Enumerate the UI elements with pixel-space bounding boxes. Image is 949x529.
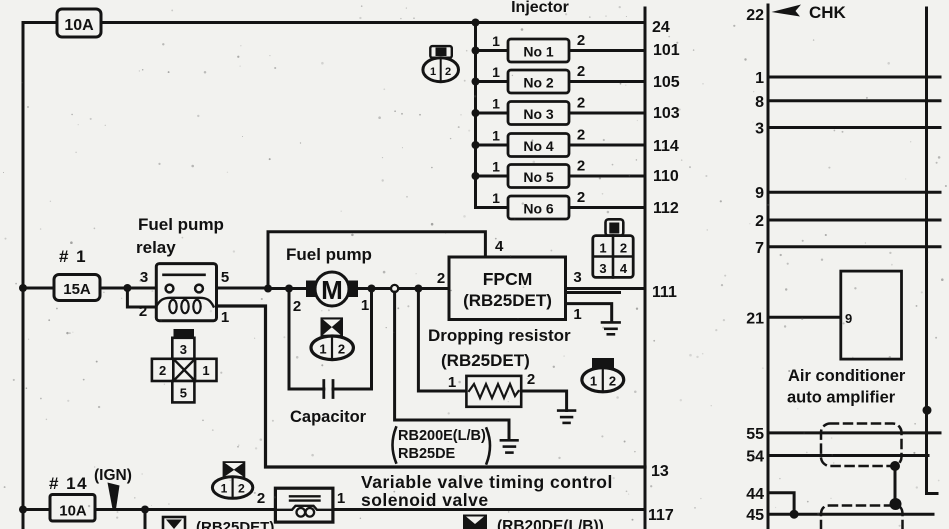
wire: pin 2 <box>768 219 940 222</box>
capacitor branch <box>289 289 372 390</box>
wire: link down <box>894 466 897 504</box>
wire: injector No4 leads <box>476 144 646 147</box>
svg-text:2: 2 <box>577 189 585 206</box>
svg-text:1: 1 <box>202 363 209 378</box>
svg-text:9: 9 <box>845 311 852 326</box>
svg-text:1: 1 <box>590 374 597 389</box>
svg-text:1: 1 <box>361 297 369 314</box>
wire: pin 3 <box>768 126 940 129</box>
svg-text:relay: relay <box>136 238 176 257</box>
svg-text:RB25DE: RB25DE <box>398 446 456 462</box>
svg-text:5: 5 <box>221 269 229 286</box>
dashed option box (45) <box>821 506 903 529</box>
svg-text:1: 1 <box>492 128 500 144</box>
svg-text:103: 103 <box>653 105 680 122</box>
wire: top feed from bus to ECU line <box>23 21 645 24</box>
svg-text:(RB20DE(L/B)): (RB20DE(L/B)) <box>497 518 604 529</box>
svg-text:7: 7 <box>755 240 764 257</box>
node: dashed box to lower link <box>890 461 900 471</box>
connector: fuel pump 2-pin (bowtie + oval) <box>311 317 353 359</box>
svg-text:1: 1 <box>573 306 581 323</box>
svg-text:2: 2 <box>577 158 585 175</box>
svg-text:Variable valve timing control: Variable valve timing control <box>361 472 613 492</box>
node: battery bus to fuse #14 <box>19 506 27 514</box>
svg-text:8: 8 <box>755 94 764 111</box>
solenoid valve (VVT) <box>275 488 333 522</box>
injector No 4 <box>508 134 569 157</box>
wire: pump feed main <box>268 287 449 290</box>
svg-text:5: 5 <box>180 386 187 401</box>
svg-text:Fuel pump: Fuel pump <box>286 245 372 264</box>
svg-text:2: 2 <box>527 371 535 388</box>
svg-text:22: 22 <box>746 7 764 24</box>
connector: injector sub-harness (oval 1|2 with tab) <box>423 46 459 82</box>
page connector (RB20DE) bowtie <box>463 515 487 529</box>
svg-text:2: 2 <box>620 241 627 256</box>
wire: injector No1 leads <box>476 49 646 52</box>
ground (FPCM) <box>602 322 620 334</box>
svg-text:2: 2 <box>159 363 166 378</box>
svg-text:4: 4 <box>495 238 504 255</box>
svg-text:1: 1 <box>492 96 500 112</box>
wire: pin 54 <box>768 454 928 457</box>
svg-text:1: 1 <box>492 33 500 49</box>
wire: pin 44 stub <box>768 493 794 515</box>
svg-text:2: 2 <box>577 127 585 144</box>
svg-text:21: 21 <box>746 311 764 328</box>
svg-text:M: M <box>321 275 343 305</box>
svg-text:CHK: CHK <box>809 3 847 22</box>
injector No 6 <box>508 196 569 219</box>
wire: pin 7 <box>768 245 940 248</box>
svg-text:No 1: No 1 <box>523 44 554 60</box>
svg-text:10A: 10A <box>59 503 87 520</box>
svg-text:45: 45 <box>746 507 764 524</box>
FPCM module <box>449 257 566 320</box>
svg-text:No 6: No 6 <box>523 201 554 217</box>
wire: resistor to ground <box>521 391 566 411</box>
svg-text:FPCM: FPCM <box>483 269 533 289</box>
dashed option box (55/54) <box>821 424 902 467</box>
connector: fuel pump relay 5-pin <box>152 329 217 402</box>
node: open circle junction (pump ground split) <box>391 285 398 292</box>
node: motor right <box>368 285 376 293</box>
connector: dropping resistor 2-pin (oval with black tab) <box>582 358 624 392</box>
fuse 10A (#14) <box>50 495 95 522</box>
svg-text:Capacitor: Capacitor <box>290 408 367 426</box>
wire: relay pin 1 to ECU pin 13 <box>217 306 646 467</box>
svg-text:1: 1 <box>492 190 500 206</box>
svg-text:3: 3 <box>180 342 187 357</box>
svg-text:Fuel pump: Fuel pump <box>138 215 224 234</box>
wire: to relay pin 2 <box>127 288 156 307</box>
node: relay output junction <box>264 285 272 293</box>
fuse 10A (top) <box>57 9 101 37</box>
svg-text:110: 110 <box>653 168 679 185</box>
wire: dropping resistor feed <box>418 289 466 392</box>
svg-text:Air conditioner: Air conditioner <box>788 367 906 385</box>
svg-text:2: 2 <box>293 298 301 315</box>
node: branch below #14 <box>141 506 149 514</box>
ground (RB20DE branch) <box>501 440 518 452</box>
injector No 3 <box>508 102 569 125</box>
svg-text:114: 114 <box>653 138 679 155</box>
wire: FPCM pin 3 to ECU 111 <box>566 287 646 290</box>
node: dropping resistor branch <box>414 285 422 293</box>
node: relay coil branch <box>123 284 131 292</box>
svg-text:(IGN): (IGN) <box>94 467 132 484</box>
CHK arrow <box>772 5 802 17</box>
svg-text:auto amplifier: auto amplifier <box>787 389 896 407</box>
svg-text:112: 112 <box>653 200 679 217</box>
node: far right junction <box>923 406 932 415</box>
svg-text:2: 2 <box>437 270 445 287</box>
wire: FPCM pin 1 to ground <box>566 304 612 322</box>
wire: pin 9 <box>768 191 940 194</box>
svg-text:1: 1 <box>319 342 326 357</box>
svg-text:(RB25DET): (RB25DET) <box>463 291 552 310</box>
svg-text:2: 2 <box>445 66 451 78</box>
wire: pin 21 to AC amplifier <box>768 316 841 319</box>
wire: branch down to page edge <box>144 510 147 529</box>
injector No 5 <box>508 165 569 188</box>
svg-text:2: 2 <box>238 482 245 496</box>
svg-text:(RB25DET): (RB25DET) <box>441 351 530 370</box>
connector: solenoid 2-pin (bowtie + oval) <box>212 461 252 498</box>
svg-text:RB200E(L/B): RB200E(L/B) <box>398 428 486 444</box>
node: 44/45 junction <box>790 510 799 519</box>
svg-text:2: 2 <box>577 95 585 112</box>
svg-text:1: 1 <box>492 159 500 175</box>
svg-text:1: 1 <box>337 490 345 507</box>
wire: RB20DE/RB25DE ground branch <box>395 292 509 440</box>
motor: fuel pump M <box>306 272 358 306</box>
svg-text:1: 1 <box>221 482 228 496</box>
injector No 1 <box>508 39 569 62</box>
svg-text:# 14: # 14 <box>49 474 88 493</box>
dropping resistor R <box>466 376 521 407</box>
wire: fuse #1 feed <box>23 287 156 290</box>
svg-text:Injector: Injector <box>511 0 569 16</box>
svg-text:No 2: No 2 <box>523 75 554 91</box>
wire: injector No5 leads <box>476 175 646 178</box>
svg-text:2: 2 <box>577 63 585 80</box>
node: bus junction row5 <box>472 172 480 180</box>
svg-text:1: 1 <box>221 309 229 326</box>
svg-text:101: 101 <box>653 42 680 59</box>
wire: pin 55 <box>768 431 940 434</box>
svg-text:13: 13 <box>651 463 669 480</box>
svg-text:10A: 10A <box>64 17 94 34</box>
node: battery bus to fuse #1 <box>19 284 27 292</box>
svg-text:3: 3 <box>140 269 148 286</box>
svg-text:# 1: # 1 <box>59 247 87 266</box>
node: bus junction row3 <box>472 109 480 117</box>
key symbol (ignition) <box>108 483 120 510</box>
svg-text:1: 1 <box>430 66 436 78</box>
AC auto amplifier box <box>841 271 902 359</box>
svg-text:1: 1 <box>448 374 456 391</box>
svg-text:54: 54 <box>746 449 764 466</box>
capacitor plates <box>324 381 333 398</box>
node: bus junction row1 <box>472 47 480 55</box>
svg-text:2: 2 <box>577 32 585 49</box>
wire: pin 45 <box>768 513 933 516</box>
node: bus junction row2 <box>472 78 480 86</box>
fuse 15A (#1) <box>54 275 100 301</box>
ground (dropping resistor) <box>558 411 575 423</box>
svg-text:9: 9 <box>755 185 764 202</box>
wire: left battery bus vertical <box>22 23 25 529</box>
node: bus junction row4 <box>472 141 480 149</box>
svg-text:2: 2 <box>755 213 764 230</box>
svg-text:1: 1 <box>492 64 500 80</box>
page connector (RB25DET) down arrow <box>163 517 185 529</box>
svg-text:111: 111 <box>652 284 677 301</box>
svg-text:2: 2 <box>338 342 345 357</box>
svg-text:2: 2 <box>257 490 265 507</box>
wire: pin 8 <box>768 99 940 102</box>
svg-text:No 3: No 3 <box>523 106 554 122</box>
wire: pin 1 <box>768 76 940 79</box>
svg-text:2: 2 <box>609 374 616 389</box>
wire: ECU connector column <box>767 5 770 529</box>
svg-text:4: 4 <box>620 261 628 276</box>
wire: FPCM pin 4 feed <box>268 232 485 289</box>
wire: FPCM pin 1 stub (doubled in scan) <box>566 291 620 294</box>
svg-text:55: 55 <box>746 426 764 443</box>
wire: injector No3 leads <box>476 112 646 115</box>
wire: relay pin 5 output <box>217 287 269 290</box>
wire: injector No6 leads (bus corner) <box>476 206 646 209</box>
node: motor left <box>285 285 293 293</box>
svg-text:solenoid valve: solenoid valve <box>361 490 489 510</box>
svg-text:2: 2 <box>139 303 147 320</box>
label: RB200E(L/B) / RB25DE with braces <box>393 428 491 464</box>
svg-text:3: 3 <box>573 269 581 286</box>
svg-text:No 5: No 5 <box>523 169 554 185</box>
svg-text:3: 3 <box>599 261 606 276</box>
svg-text:1: 1 <box>755 70 764 87</box>
svg-text:3: 3 <box>755 121 764 138</box>
node: link bottom <box>890 498 902 510</box>
wire: injector No2 leads <box>476 80 646 83</box>
svg-text:105: 105 <box>653 74 680 91</box>
wire: IGN feed to ECU 117 <box>23 508 645 511</box>
injector No 2 <box>508 70 569 93</box>
svg-text:No 4: No 4 <box>523 138 554 154</box>
svg-text:15A: 15A <box>63 281 91 298</box>
wire: injector bus vertical <box>474 23 477 208</box>
node: injector bus junction <box>472 19 480 27</box>
svg-text:(RB25DET): (RB25DET) <box>196 519 274 529</box>
connector: FPCM 4-pin <box>593 219 633 277</box>
svg-text:117: 117 <box>648 507 674 524</box>
svg-text:44: 44 <box>746 486 764 503</box>
wire: far right vertical <box>927 8 938 494</box>
svg-text:Dropping resistor: Dropping resistor <box>428 326 571 345</box>
wire: ECU main vertical line <box>644 8 647 529</box>
svg-text:1: 1 <box>599 241 606 256</box>
relay: fuel pump relay <box>156 264 216 321</box>
